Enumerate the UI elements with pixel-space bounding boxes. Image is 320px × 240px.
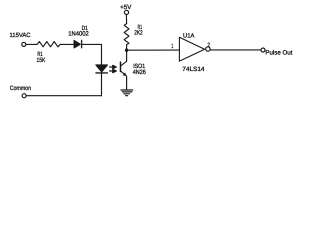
- svg-text:1: 1: [171, 43, 173, 50]
- terminal 115VAC: [22, 42, 26, 46]
- svg-text:U1A: U1A: [183, 32, 195, 39]
- light arrow 2: [110, 69, 117, 72]
- wire: [82, 44, 102, 65]
- svg-text:2K2: 2K2: [134, 30, 143, 37]
- light arrow 1: [110, 65, 117, 68]
- terminal Common: [22, 94, 26, 98]
- wire: [26, 43, 37, 45]
- svg-text:15K: 15K: [37, 57, 46, 64]
- terminal +5V: [124, 10, 128, 14]
- wire (bottom rail): [27, 95, 102, 97]
- diode D1 1N4002: [74, 40, 82, 48]
- svg-text:115VAC: 115VAC: [10, 32, 31, 39]
- resistor R1 15K: [37, 42, 60, 47]
- wire: [101, 73, 103, 95]
- svg-text:1N4002: 1N4002: [68, 30, 89, 37]
- svg-text:+5V: +5V: [120, 4, 132, 11]
- svg-text:Common: Common: [10, 85, 32, 92]
- terminal Pulse Out: [261, 48, 265, 52]
- opto phototransistor ISO1 4N26: [121, 61, 127, 76]
- opto LED (ISO1 emitter diode): [96, 65, 108, 73]
- svg-text:4N26: 4N26: [133, 69, 147, 76]
- wire: [60, 43, 74, 45]
- svg-text:2: 2: [207, 42, 210, 49]
- wire: [126, 45, 128, 62]
- ground: [121, 90, 133, 96]
- op-amp U1A 74LS14 inverter: [179, 37, 210, 61]
- svg-text:74LS14: 74LS14: [182, 66, 205, 73]
- wire (to inverter input): [127, 49, 180, 51]
- wire: [125, 15, 127, 24]
- wire: [126, 76, 128, 90]
- svg-text:Pulse Out: Pulse Out: [265, 50, 292, 57]
- resistor R1 2k2 (vertical): [124, 24, 129, 45]
- wire (output): [210, 49, 260, 51]
- node junction: [125, 49, 128, 52]
